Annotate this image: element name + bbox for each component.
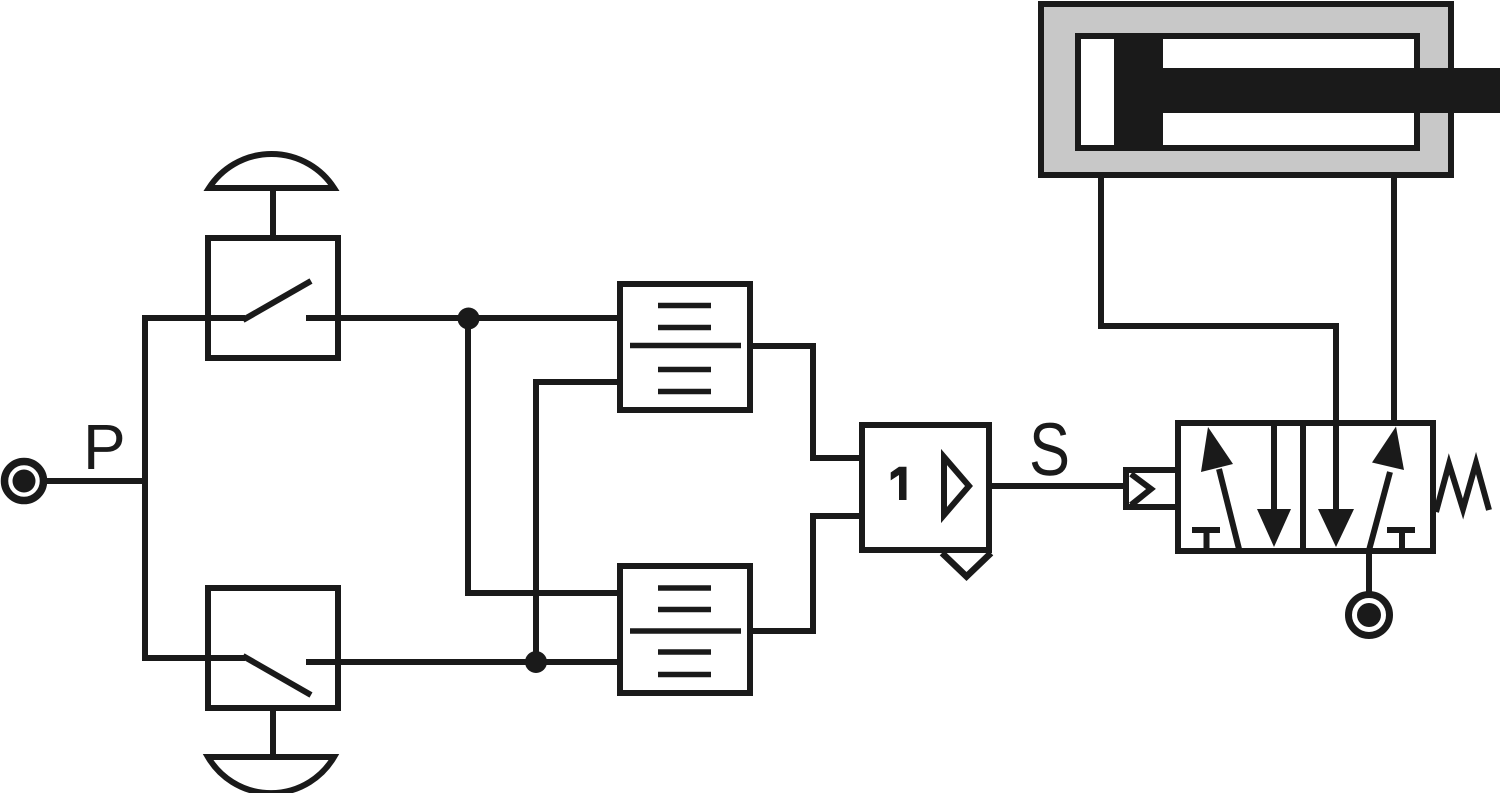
signal element B2 plate lines bbox=[630, 588, 741, 675]
valve V1 5/2-way body bbox=[1178, 420, 1433, 554]
valve V1 supply port connector bbox=[1349, 595, 1390, 636]
wire S1 output to node A bbox=[338, 315, 620, 321]
valve V1 bottom supply port stem bbox=[1366, 554, 1372, 593]
valve V1 left position down-flow arrow bbox=[1257, 426, 1291, 547]
push button valve S2 mushroom actuator bbox=[208, 708, 334, 793]
wire S2 output to node B bbox=[338, 659, 620, 665]
push button valve S1 body bbox=[208, 238, 338, 358]
label S bbox=[1029, 407, 1070, 491]
valve V1 right position down-flow arrow bbox=[1318, 426, 1354, 547]
wire node A down to element B2 input bbox=[468, 318, 620, 593]
valve V1 right position exhaust T bbox=[1387, 530, 1415, 551]
OR element U1 amplifier triangle bbox=[944, 457, 969, 515]
wire distribution riser to valves S1 and S2 bbox=[145, 318, 208, 658]
valve V1 return spring bbox=[1436, 463, 1489, 512]
svg-text:P: P bbox=[83, 411, 126, 483]
cylinder A1 piston rod bbox=[1163, 68, 1500, 113]
junction node B bbox=[525, 651, 547, 673]
push button valve S1 switch contact bbox=[208, 281, 341, 320]
wire B2 output to element U1 lower input bbox=[750, 516, 862, 631]
pressure source connector P bbox=[5, 462, 44, 501]
signal element B2 body bbox=[620, 566, 750, 693]
signal element B1 plate lines bbox=[630, 306, 741, 392]
OR element U1 exhaust triangle bbox=[942, 553, 991, 577]
push button valve S2 body bbox=[208, 588, 338, 708]
push button valve S2 switch contact bbox=[208, 656, 341, 695]
push button valve S1 mushroom actuator bbox=[209, 154, 334, 238]
wire source P to distribution node bbox=[43, 478, 148, 484]
cylinder A1 body bbox=[1041, 4, 1451, 175]
valve V1 left position exhaust T bbox=[1192, 530, 1220, 551]
wire node B up to element B1 input bbox=[536, 382, 620, 662]
valve V1 right position up-flow arrow bbox=[1368, 427, 1404, 555]
cylinder A1 piston bbox=[1114, 39, 1163, 145]
signal element B1 body bbox=[620, 284, 750, 410]
wire U1 output signal S to valve pilot bbox=[989, 483, 1126, 489]
valve V1 pilot port bbox=[1123, 467, 1178, 510]
OR element U1 label 1 bbox=[891, 467, 907, 500]
svg-text:S: S bbox=[1029, 407, 1070, 491]
wire B1 output to element U1 upper input bbox=[750, 346, 862, 458]
OR element U1 body bbox=[862, 425, 989, 550]
wire cylinder right port to valve port 2 bbox=[1391, 175, 1397, 428]
junction node A bbox=[458, 308, 480, 330]
wire cylinder left port to valve port 4 bbox=[1101, 175, 1336, 430]
valve V1 left position up-flow arrow bbox=[1201, 427, 1239, 549]
label P bbox=[83, 411, 126, 483]
